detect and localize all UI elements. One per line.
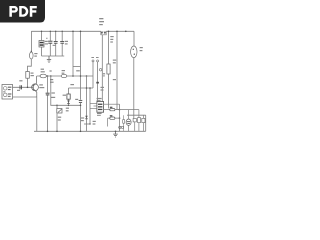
tick on TP2 wire (96, 82, 99, 84)
label C3 (65, 41, 68, 45)
label near x117 (113, 60, 116, 81)
label D2 above bridge (76, 70, 80, 71)
label D3 (81, 117, 84, 121)
diode D3 on x86.5 (85, 116, 88, 119)
meter M1 ellipse (126, 119, 131, 125)
J1 pin 2 (3, 93, 7, 97)
label C4 (17, 80, 23, 91)
marks inside M1 (127, 121, 130, 124)
wire terminal bus column (119, 104, 121, 131)
capacitor C8 (142, 118, 145, 122)
marks in J1 (3, 87, 11, 97)
fuse F1 (30, 52, 34, 59)
wire trimpot to bottom rail (56, 113, 58, 131)
label fuse (34, 53, 37, 57)
capacitor C5 plates (46, 93, 50, 95)
capacitor C4 on base wire (20, 85, 22, 89)
resistor R3 pill on y76 (61, 74, 67, 77)
label C2 (53, 45, 56, 46)
resistor R10 (133, 118, 136, 122)
capacitor C2 plates (54, 42, 58, 44)
wire output top y109.9 (120, 109, 139, 111)
label Q1 (39, 84, 44, 88)
wire bridge at y66.5 (73, 66, 81, 68)
node junctions y88 (86, 87, 91, 125)
wire U1 top pin to bus (104, 103, 120, 105)
label R2 (31, 73, 34, 77)
op-amp U1 box (97, 102, 104, 113)
label U1 below (97, 113, 102, 116)
wire output column x117 (116, 31, 118, 109)
marks inside U1 (98, 104, 102, 111)
wire y88 cross (69, 87, 94, 89)
connector J1 AC input box (2, 85, 13, 100)
capacitor C7 narrow box (123, 120, 125, 124)
trimpot wiper (58, 109, 62, 112)
diode D6 tiny (119, 126, 121, 128)
label near RV1 (45, 41, 48, 45)
node base junction (27, 87, 29, 89)
wire x90 branch to IC (89, 88, 91, 124)
node bus junctions (119, 109, 121, 119)
varistor RV1 branch (41, 31, 43, 56)
label LP1 (140, 47, 143, 51)
resistor R9 branch at x108.5 (108, 31, 110, 108)
wire top rail (31, 30, 134, 32)
wire M1 leads (128, 110, 130, 132)
resistor R9 box (107, 64, 110, 74)
node y76 junctions (47, 75, 88, 77)
ground GND1 (47, 56, 51, 62)
resistor R2 (26, 72, 30, 79)
wire fuse to resistor R2 (28, 59, 32, 72)
terminal TP2 (97, 60, 99, 62)
terminal TP3 (99, 69, 101, 71)
label VR1 (58, 117, 61, 121)
node junctions y105 (56, 105, 81, 107)
labels along x102 column (101, 73, 106, 90)
PDF badge text (9, 6, 36, 17)
resistor R5 pill (104, 109, 120, 111)
diode D1 branch (68, 88, 70, 105)
trimpot VR1 feed (56, 105, 58, 108)
label below node 50.8 (50, 79, 54, 83)
lamp LP1 (131, 46, 137, 58)
ground GND2 (113, 131, 118, 137)
U1 left pins (90, 103, 97, 108)
wire TP1 down (92, 62, 94, 88)
capacitor C3 plates (60, 42, 64, 44)
label R4 (63, 95, 69, 112)
wire diode pair down to IC (101, 35, 103, 102)
trimpot VR1 (57, 109, 62, 114)
wire vertical rail to bottom at x80.5 (80, 31, 82, 131)
capacitor C9 tiny (122, 126, 124, 128)
terminal TP1 (92, 60, 94, 62)
node rail junctions top (31, 31, 127, 53)
capacitor C1 electrolytic branch (49, 31, 51, 56)
wire bottom rail (34, 130, 146, 132)
fuse F1 branch (30, 31, 32, 52)
label R5 (110, 107, 113, 108)
plus mark C1 (46, 37, 48, 40)
capacitor C1 plates (48, 41, 52, 43)
label R1 (41, 69, 52, 73)
capacitor C3 branch (61, 31, 63, 56)
wire lamp down to output cluster (133, 58, 135, 119)
varistor RV1 box (39, 41, 44, 48)
wire TP2 down to IC (97, 62, 99, 102)
J1 pin 1 (3, 87, 7, 91)
wire x86.5 branch (86, 76, 88, 131)
capacitor C6 plates on x80.5 (79, 100, 83, 102)
label R9 (110, 36, 113, 43)
label above y88 wire (70, 84, 74, 85)
transistor Q1 (32, 76, 39, 97)
resistor R11 (138, 118, 141, 123)
resistor R1 on y76 (40, 74, 46, 78)
wire base from J1 (13, 86, 34, 88)
label C5 (51, 92, 55, 98)
wire node 50.8 down to y105 (51, 76, 81, 105)
wire vertical rail to node at x73 (72, 31, 74, 76)
wire collector rail y76 (37, 75, 93, 77)
wire output mid y115.2 (127, 114, 146, 116)
diode D1 arrow (67, 100, 70, 103)
PDF badge (0, 0, 45, 23)
wire y124 stub (84, 123, 90, 125)
wire R2 to base node (27, 78, 29, 87)
label below left of cluster (93, 121, 96, 125)
label R3 (62, 70, 65, 74)
marks inside RV1 (40, 42, 44, 46)
label C6 (75, 99, 78, 100)
label R6 (110, 115, 113, 116)
resistor R6 pill (108, 118, 120, 126)
wire right edge down (145, 115, 147, 131)
lamp LP1 branch (133, 31, 135, 46)
wire lower cap rail (42, 55, 65, 57)
label U1 above (97, 98, 102, 101)
wire J1 bottom return (13, 97, 37, 131)
capacitor C2 branch (55, 31, 57, 56)
resistor R4 box on diode branch (67, 94, 70, 99)
diode pair D4 D5 on rail (101, 31, 107, 35)
labels TP1 TP2 (91, 57, 98, 58)
lamp electrodes (133, 49, 135, 55)
label above diode pair (99, 18, 104, 25)
capacitor C5 electrolytic branch (47, 76, 49, 131)
node bottom rail junctions (47, 131, 117, 133)
